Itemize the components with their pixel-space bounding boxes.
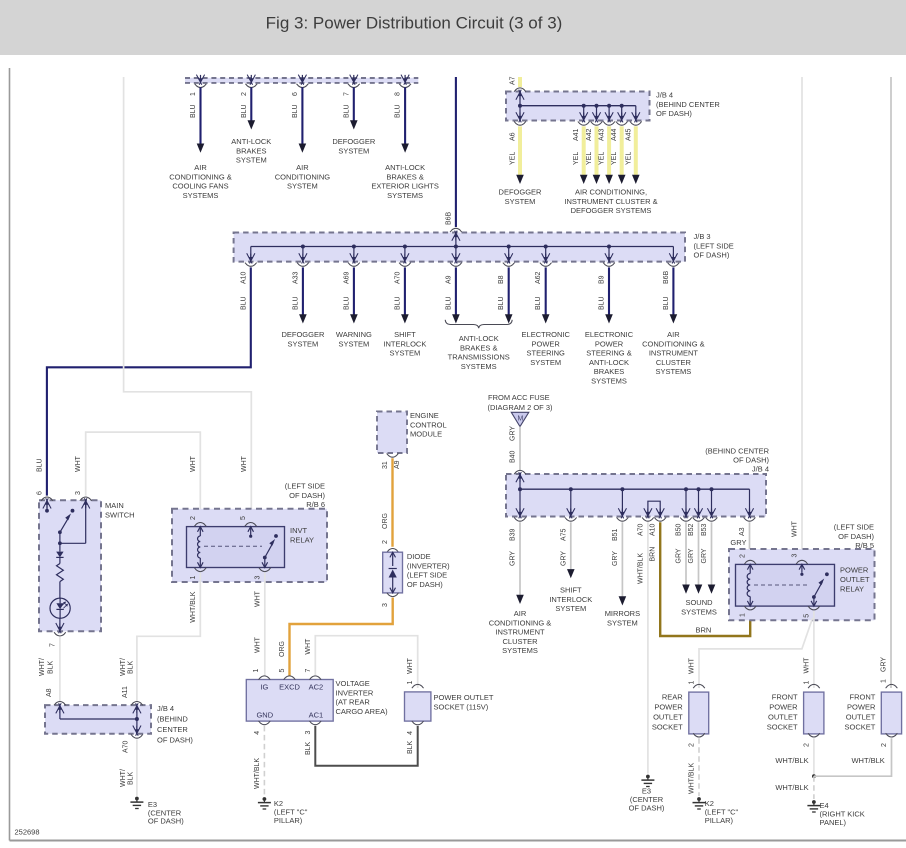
J/B4 pin A10 <box>656 508 661 518</box>
svg-text:GRY: GRY <box>510 551 517 566</box>
svg-text:IG: IG <box>260 683 268 692</box>
J/B3 pin A62 <box>542 253 547 263</box>
wire BLU from J/B3 A70 <box>404 267 406 314</box>
J/B4 pin A7 <box>514 88 526 92</box>
J/B4 pin B51 <box>618 508 623 518</box>
svg-text:OUTLET: OUTLET <box>846 713 876 722</box>
J/B3 pin B9 <box>605 253 610 263</box>
svg-text:RELAY: RELAY <box>290 535 314 544</box>
junction node <box>58 541 62 545</box>
bus junction <box>697 487 701 491</box>
junction node <box>812 774 816 778</box>
J/B4 pin A44 <box>618 112 623 122</box>
svg-text:REAR: REAR <box>662 692 683 701</box>
svg-text:BLU: BLU <box>343 296 350 310</box>
J/B4 top internal bus <box>519 92 521 121</box>
wire BLU from J/B3 A62 <box>545 267 547 314</box>
svg-text:BLU: BLU <box>498 296 505 310</box>
indicator LED in main switch <box>50 598 70 618</box>
front power outlet socket 1 <box>808 684 820 688</box>
svg-text:AIR CONDITIONING,: AIR CONDITIONING, <box>575 188 647 197</box>
wire WHT main switch pin 3 to INVT relay pin 2 <box>86 432 201 521</box>
relay pin 1 <box>744 606 756 610</box>
svg-text:3: 3 <box>305 731 312 735</box>
main switch pin 3 <box>80 497 92 501</box>
svg-text:CONDITIONING &: CONDITIONING & <box>642 339 705 348</box>
svg-text:SYSTEM: SYSTEM <box>505 197 536 206</box>
wire GRY A75 to shift interlock <box>570 522 572 569</box>
svg-text:PANEL): PANEL) <box>820 818 847 827</box>
svg-text:WHT/: WHT/ <box>120 769 127 787</box>
svg-text:EXTERIOR LIGHTS: EXTERIOR LIGHTS <box>371 182 439 191</box>
INVT relay pin 1 <box>194 568 206 572</box>
svg-text:M: M <box>517 415 523 422</box>
hinge node <box>58 530 62 534</box>
inverter pin AC2 <box>309 676 321 680</box>
svg-text:ANTI-LOCK: ANTI-LOCK <box>459 334 499 343</box>
wire WHT/BLK INVT pin1 to J/B4 A11 <box>137 573 200 702</box>
wire ORG diode to voltage inverter EXCD <box>290 598 393 676</box>
svg-text:1: 1 <box>803 681 810 685</box>
svg-text:BLK: BLK <box>128 660 135 674</box>
INVT relay K1 body <box>187 527 285 568</box>
svg-text:SOUND: SOUND <box>685 598 713 607</box>
svg-text:OF DASH): OF DASH) <box>148 817 184 826</box>
svg-text:B6B: B6B <box>663 270 670 284</box>
svg-text:BRAKES &: BRAKES & <box>460 343 498 352</box>
wire BLU from S1 pin 2 <box>250 87 252 121</box>
J/B3 internal bus <box>251 246 674 248</box>
svg-text:(AT REAR: (AT REAR <box>336 698 371 707</box>
J/B4 pin A42 <box>592 112 597 122</box>
J/B4 pin B50 <box>682 508 687 518</box>
svg-text:A8: A8 <box>46 688 53 697</box>
J/B3 pin A33 <box>299 253 304 263</box>
svg-text:A44: A44 <box>611 128 618 141</box>
connector M (from ACC fuse) <box>511 412 529 426</box>
J/B4 A70-A10 bridge <box>648 501 660 516</box>
wire WHT long vertical to power outlet relay pin 3 <box>801 77 803 555</box>
relay switch <box>812 595 816 599</box>
svg-text:A45: A45 <box>625 128 632 141</box>
svg-text:SYSTEM: SYSTEM <box>389 349 420 358</box>
svg-text:WHT/: WHT/ <box>120 658 127 676</box>
svg-text:(INVERTER): (INVERTER) <box>407 561 450 570</box>
svg-text:GND: GND <box>256 711 273 720</box>
front socket 1 pin 2 <box>808 733 820 737</box>
svg-text:BLK: BLK <box>48 660 55 674</box>
svg-text:FRONT: FRONT <box>772 692 798 701</box>
svg-text:B6B: B6B <box>445 211 452 225</box>
wire WHT INVT pin3 to voltage inverter IG <box>264 573 266 676</box>
svg-text:(BEHIND CENTER: (BEHIND CENTER <box>656 100 720 109</box>
svg-text:CONTROL: CONTROL <box>410 420 447 429</box>
svg-text:POWER: POWER <box>847 702 876 711</box>
inverter pin GND <box>259 721 271 725</box>
svg-text:STEERING &: STEERING & <box>586 349 631 358</box>
inverter pin IG <box>259 676 271 680</box>
svg-text:2: 2 <box>190 516 197 520</box>
svg-text:YEL: YEL <box>586 152 593 165</box>
wire WHT/BLK A70 to ground E3 <box>136 739 138 795</box>
junction block J/B 4 (behind center of dash, middle) <box>506 474 766 517</box>
strip S1 pin 7 <box>350 75 355 85</box>
svg-text:BLU: BLU <box>190 104 197 118</box>
svg-text:GRY: GRY <box>612 551 619 566</box>
svg-text:2: 2 <box>740 554 747 558</box>
svg-text:A10: A10 <box>650 523 657 536</box>
svg-text:CONDITIONING &: CONDITIONING & <box>169 172 232 181</box>
svg-text:WHT: WHT <box>254 636 261 653</box>
bus junction <box>301 245 305 249</box>
J/B4 pin A6 <box>516 112 521 122</box>
svg-text:POWER: POWER <box>769 702 798 711</box>
socket pin 4 <box>412 721 424 725</box>
svg-text:YEL: YEL <box>611 152 618 165</box>
svg-text:VOLTAGE: VOLTAGE <box>336 679 370 688</box>
wire YEL from A42 <box>595 126 599 176</box>
svg-text:(LEFT SIDE: (LEFT SIDE <box>834 523 874 532</box>
svg-text:SYSTEM: SYSTEM <box>236 156 267 165</box>
svg-text:WHT/BLK: WHT/BLK <box>689 763 696 794</box>
relay pin 2 <box>744 560 756 564</box>
svg-text:A9: A9 <box>445 275 452 284</box>
svg-text:5: 5 <box>279 669 286 673</box>
wire BLU from J/B3 A10 to main switch pin 6 <box>47 267 251 495</box>
J/B4 pin A75 <box>567 508 572 518</box>
svg-text:DIODE: DIODE <box>407 552 431 561</box>
svg-text:FROM ACC FUSE: FROM ACC FUSE <box>488 393 550 402</box>
svg-text:OUTLET: OUTLET <box>653 713 683 722</box>
wire BLU from S1 pin 6 <box>301 87 303 144</box>
J/B3 pin B8 <box>505 253 510 263</box>
wire WHT/BLK GND to ground K2 (dashed) <box>263 726 265 796</box>
strip S1 pin 6 <box>298 75 303 85</box>
svg-text:B51: B51 <box>612 528 619 541</box>
svg-text:A75: A75 <box>560 528 567 541</box>
bus junction <box>595 104 599 108</box>
svg-text:2: 2 <box>382 540 389 544</box>
svg-text:GRY: GRY <box>688 548 695 563</box>
svg-text:(LEFT SIDE: (LEFT SIDE <box>285 482 325 491</box>
svg-text:(BEHIND CENTER: (BEHIND CENTER <box>705 447 769 456</box>
bus junction <box>620 487 624 491</box>
svg-text:BLU: BLU <box>599 296 606 310</box>
svg-text:ORG: ORG <box>279 641 286 657</box>
wire BLU from S1 pin 8 <box>404 87 406 144</box>
J/B4 pin A3 <box>745 508 750 518</box>
wire WHT relay pin5 to front power outlet socket <box>813 611 815 688</box>
svg-text:1: 1 <box>253 669 260 673</box>
wire WHT/BLK junction to ground E4 (dashed) <box>813 776 815 799</box>
J/B4 pin A43 <box>605 112 610 122</box>
svg-text:BLU: BLU <box>36 458 43 472</box>
svg-text:ANTI-LOCK: ANTI-LOCK <box>231 137 271 146</box>
svg-text:A9: A9 <box>394 460 401 469</box>
main switch pin 7 <box>56 623 61 633</box>
svg-text:BLK: BLK <box>128 771 135 785</box>
svg-text:BLU: BLU <box>445 296 452 310</box>
svg-text:A42: A42 <box>586 128 593 141</box>
bus junction <box>135 717 139 721</box>
svg-text:COOLING FANS: COOLING FANS <box>172 182 228 191</box>
wire WHT/BLK pin7 to J/B4 A8 <box>59 637 61 701</box>
wire GRY B51 to mirrors system <box>621 522 623 596</box>
svg-text:INTERLOCK: INTERLOCK <box>549 595 592 604</box>
svg-text:CLUSTER: CLUSTER <box>502 637 538 646</box>
svg-text:EXCD: EXCD <box>279 683 300 692</box>
svg-text:WHT: WHT <box>689 657 696 674</box>
svg-text:6: 6 <box>292 92 299 96</box>
svg-text:MODULE: MODULE <box>410 430 442 439</box>
svg-text:A70: A70 <box>123 740 130 753</box>
svg-text:31: 31 <box>382 461 389 469</box>
svg-text:BLU: BLU <box>394 296 401 310</box>
LED emission arrows <box>62 602 66 606</box>
svg-text:B52: B52 <box>688 523 695 536</box>
svg-text:DEFOGGER SYSTEMS: DEFOGGER SYSTEMS <box>571 206 652 215</box>
bus junction <box>620 104 624 108</box>
svg-text:5: 5 <box>803 614 810 618</box>
svg-text:3: 3 <box>382 603 389 607</box>
junction block J/B 4 (behind center of dash, lower left) <box>45 705 151 734</box>
wires GRY B50 B52 B53 to sound systems <box>685 522 687 584</box>
relay block R/B 6 container <box>172 509 327 582</box>
INVT relay switch <box>263 556 267 560</box>
svg-text:OF DASH): OF DASH) <box>407 580 443 589</box>
svg-text:WHT/BLK: WHT/BLK <box>637 553 644 584</box>
svg-text:BLK: BLK <box>407 740 414 754</box>
svg-text:WHT: WHT <box>241 455 248 472</box>
relay divider dashed <box>754 584 810 586</box>
svg-text:3: 3 <box>791 554 798 558</box>
svg-text:SOCKET: SOCKET <box>845 723 876 732</box>
wire WHT/BLK A70 to ground E3 <box>647 522 649 773</box>
wire WHT/BLK rear socket to ground K2 (dashed) <box>698 738 700 796</box>
svg-text:BRAKES: BRAKES <box>594 367 624 376</box>
wire YEL from A43 <box>607 126 611 176</box>
wire GRY fuse to J/B4 B40 <box>519 427 521 471</box>
bus junction <box>518 104 522 108</box>
diode pin 3 <box>387 593 399 597</box>
svg-text:SHIFT: SHIFT <box>560 586 582 595</box>
svg-text:TRANSMISSIONS: TRANSMISSIONS <box>448 353 510 362</box>
svg-text:ANTI-LOCK: ANTI-LOCK <box>385 163 425 172</box>
J/B4 pin B39 <box>516 508 521 518</box>
svg-text:2: 2 <box>689 743 696 747</box>
wire BLU from J/B3 A33 <box>302 267 304 314</box>
svg-text:WHT: WHT <box>803 657 810 674</box>
fixed contact node <box>71 509 75 513</box>
wire BLU from J/B3 B8 <box>508 267 510 314</box>
svg-text:OUTLET: OUTLET <box>840 575 870 584</box>
svg-text:BRAKES: BRAKES <box>236 146 266 155</box>
svg-text:WHT: WHT <box>254 590 261 607</box>
wire WHT/BLK junction to front socket 2 <box>814 738 892 776</box>
svg-text:OF DASH): OF DASH) <box>157 736 193 745</box>
page border bottom <box>10 840 906 842</box>
svg-text:B8: B8 <box>498 275 505 284</box>
wire YEL into J/B4 pin A7 <box>518 77 522 87</box>
svg-text:A43: A43 <box>599 128 606 141</box>
svg-text:GRY: GRY <box>560 551 567 566</box>
svg-text:STEERING: STEERING <box>527 349 566 358</box>
wire GRY long vertical to front power outlet socket 2 <box>890 77 892 688</box>
header bar <box>0 0 906 55</box>
svg-text:POWER OUTLET: POWER OUTLET <box>434 693 494 702</box>
wire WHT relay pin5 branch to rear power outlet socket <box>699 618 813 688</box>
svg-text:8: 8 <box>395 92 402 96</box>
svg-text:R/B 6: R/B 6 <box>306 500 325 509</box>
svg-text:1: 1 <box>881 679 888 683</box>
power outlet socket (115V) <box>412 684 424 688</box>
svg-text:CONDITIONING &: CONDITIONING & <box>489 618 552 627</box>
front power outlet socket 2 <box>886 684 898 688</box>
svg-text:BLU: BLU <box>240 296 247 310</box>
svg-text:B40: B40 <box>510 450 517 463</box>
J/B4 pin A70 <box>133 726 138 736</box>
svg-text:INSTRUMENT: INSTRUMENT <box>495 628 545 637</box>
J/B3 pin A9 <box>452 253 457 263</box>
svg-text:R/B 5: R/B 5 <box>855 541 874 550</box>
wire BLU from J/B3 A69 <box>353 267 355 314</box>
wire WHT long vertical to INVT relay pin 5 <box>124 77 252 521</box>
wire GRY A3 to relay pin 2 <box>749 522 751 555</box>
svg-text:A70: A70 <box>637 523 644 536</box>
ground K2 (left C pillar) <box>263 797 267 801</box>
wire YEL from A44 <box>620 126 624 176</box>
svg-text:7: 7 <box>305 669 312 673</box>
svg-text:1: 1 <box>689 681 696 685</box>
J/B4 mid internal bus <box>520 488 750 490</box>
bus junction <box>582 104 586 108</box>
svg-text:A41: A41 <box>573 128 580 141</box>
wire WHT/BLK front socket 1 down <box>813 738 815 776</box>
bus junction <box>684 487 688 491</box>
svg-text:MIRRORS: MIRRORS <box>605 609 640 618</box>
svg-text:7: 7 <box>343 92 350 96</box>
relay block R/B 5 container <box>729 549 875 620</box>
wire YEL from A45 <box>634 126 638 176</box>
svg-text:WHT: WHT <box>190 455 197 472</box>
svg-text:SYSTEM: SYSTEM <box>338 146 369 155</box>
svg-text:SOCKET: SOCKET <box>767 723 798 732</box>
bus junction <box>607 104 611 108</box>
svg-text:5: 5 <box>240 516 247 520</box>
contact node <box>45 509 49 513</box>
bus junction <box>352 245 356 249</box>
main switch SW1 <box>39 500 101 631</box>
svg-text:SYSTEM: SYSTEM <box>338 339 369 348</box>
svg-text:OF DASH): OF DASH) <box>838 532 874 541</box>
wire WHT AC2 to power outlet socket 115V <box>315 636 417 688</box>
svg-text:DEFOGGER: DEFOGGER <box>281 330 325 339</box>
bus junction <box>518 487 522 491</box>
svg-text:J/B 4: J/B 4 <box>656 91 673 100</box>
J/B3 pin B6B (top) <box>450 228 462 232</box>
bus junction <box>607 245 611 249</box>
svg-text:WHT/BLK: WHT/BLK <box>190 591 197 622</box>
svg-text:1: 1 <box>740 613 747 617</box>
svg-text:SYSTEMS: SYSTEMS <box>387 191 423 200</box>
strip S1 pin 1 <box>196 75 201 85</box>
svg-text:1: 1 <box>190 92 197 96</box>
wire YEL from A41 <box>582 126 586 176</box>
svg-text:SYSTEM: SYSTEM <box>555 604 586 613</box>
resistor R in main switch <box>59 557 61 563</box>
svg-text:6: 6 <box>36 491 43 495</box>
svg-text:DEFOGGER: DEFOGGER <box>332 137 376 146</box>
wire BLU from S1 pin 1 <box>199 87 201 144</box>
svg-text:SYSTEM: SYSTEM <box>287 182 318 191</box>
INVT relay coil <box>198 527 204 532</box>
svg-text:Fig 3: Power Distribution Circ: Fig 3: Power Distribution Circuit (3 of … <box>266 14 563 33</box>
svg-text:2: 2 <box>241 92 248 96</box>
svg-text:RELAY: RELAY <box>840 585 864 594</box>
svg-text:POWER: POWER <box>532 339 561 348</box>
relay divider dashed <box>204 545 262 547</box>
svg-text:A69: A69 <box>343 271 350 284</box>
J/B4 pin B52 <box>694 508 699 518</box>
svg-text:A7: A7 <box>510 76 517 85</box>
svg-text:BLU: BLU <box>535 296 542 310</box>
bus junction <box>710 487 714 491</box>
wire BLU from J/B3 A9 <box>455 267 457 314</box>
svg-text:SWITCH: SWITCH <box>105 510 135 519</box>
wire BLU from J/B3 B9 <box>608 267 610 314</box>
svg-text:AIR: AIR <box>296 163 309 172</box>
bus junction <box>403 245 407 249</box>
diode D in main switch <box>59 543 61 551</box>
svg-text:A70: A70 <box>394 271 401 284</box>
svg-text:GRY: GRY <box>730 538 746 547</box>
svg-text:CENTER: CENTER <box>157 725 188 734</box>
power outlet relay K2 body <box>736 564 835 606</box>
voltage inverter U1 <box>246 680 333 722</box>
svg-text:WHT/BLK: WHT/BLK <box>851 756 884 765</box>
svg-text:GRY: GRY <box>881 657 888 672</box>
wire BLU from J/B3 B6B <box>672 267 674 314</box>
svg-text:SYSTEM: SYSTEM <box>530 358 561 367</box>
svg-text:SYSTEMS: SYSTEMS <box>591 377 627 386</box>
main switch pin 6 <box>41 497 53 501</box>
J/B4 pin A41 <box>580 112 585 122</box>
relay coil <box>747 564 753 569</box>
diode (inverter) D2 <box>387 549 399 553</box>
svg-text:YEL: YEL <box>625 152 632 165</box>
wire BLU B6B feed into J/B 3 <box>455 77 457 227</box>
svg-text:2: 2 <box>881 743 888 747</box>
INVT relay pin 2 <box>194 523 206 527</box>
connector strip S1 (top-left bus) <box>185 78 418 83</box>
J/B4 pin A45 <box>632 112 637 122</box>
wire BLK AC1 to socket pin 4 <box>315 726 417 766</box>
svg-text:BLK: BLK <box>305 741 312 755</box>
svg-text:(LEFT SIDE: (LEFT SIDE <box>694 241 734 250</box>
INVT relay pin 3 <box>259 568 271 572</box>
svg-text:7: 7 <box>49 643 56 647</box>
J/B3 pin A69 <box>350 253 355 263</box>
switch arm <box>60 516 69 532</box>
svg-text:BLU: BLU <box>663 296 670 310</box>
wire BRN A10 to power outlet relay pin 1 <box>660 522 750 636</box>
svg-text:POWER: POWER <box>840 566 869 575</box>
svg-text:2: 2 <box>803 743 810 747</box>
svg-text:OF DASH): OF DASH) <box>733 456 769 465</box>
svg-text:WHT: WHT <box>305 638 312 655</box>
svg-text:SHIFT: SHIFT <box>394 330 416 339</box>
engine control module <box>377 412 407 454</box>
